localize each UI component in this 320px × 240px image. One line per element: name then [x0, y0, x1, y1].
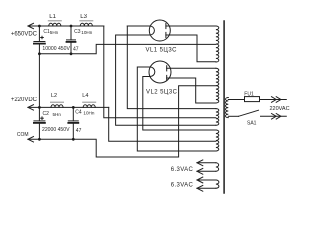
svg-text:10Hn: 10Hn — [83, 110, 94, 115]
svg-text:47: 47 — [76, 128, 82, 134]
svg-text:47: 47 — [73, 47, 79, 53]
svg-text:L4: L4 — [82, 93, 88, 99]
svg-text:L2: L2 — [51, 93, 57, 99]
svg-text:+650VDC: +650VDC — [11, 32, 38, 38]
svg-text:C4: C4 — [75, 110, 82, 116]
svg-text:5Hn: 5Hn — [53, 112, 62, 117]
svg-text:VL2 5Ц3С: VL2 5Ц3С — [146, 90, 178, 96]
svg-text:FU1: FU1 — [244, 91, 254, 97]
svg-text:22000 450V: 22000 450V — [42, 127, 70, 133]
svg-text:L3: L3 — [80, 14, 87, 20]
svg-text:C2: C2 — [43, 111, 50, 117]
svg-text:220VAC: 220VAC — [270, 106, 290, 112]
svg-text:SA1: SA1 — [247, 120, 257, 126]
svg-text:C3: C3 — [74, 29, 81, 35]
svg-text:5Hn: 5Hn — [50, 30, 59, 35]
svg-text:10000 450V: 10000 450V — [42, 46, 70, 52]
svg-text:10Hn: 10Hn — [81, 30, 92, 35]
svg-text:+220VDC: +220VDC — [11, 97, 38, 103]
svg-text:6.3VAC: 6.3VAC — [171, 167, 194, 173]
svg-text:VL1 5Ц3С: VL1 5Ц3С — [146, 47, 178, 53]
svg-text:COM: COM — [17, 132, 29, 138]
svg-text:6.3VAC: 6.3VAC — [171, 183, 194, 189]
svg-text:L1: L1 — [49, 14, 56, 20]
